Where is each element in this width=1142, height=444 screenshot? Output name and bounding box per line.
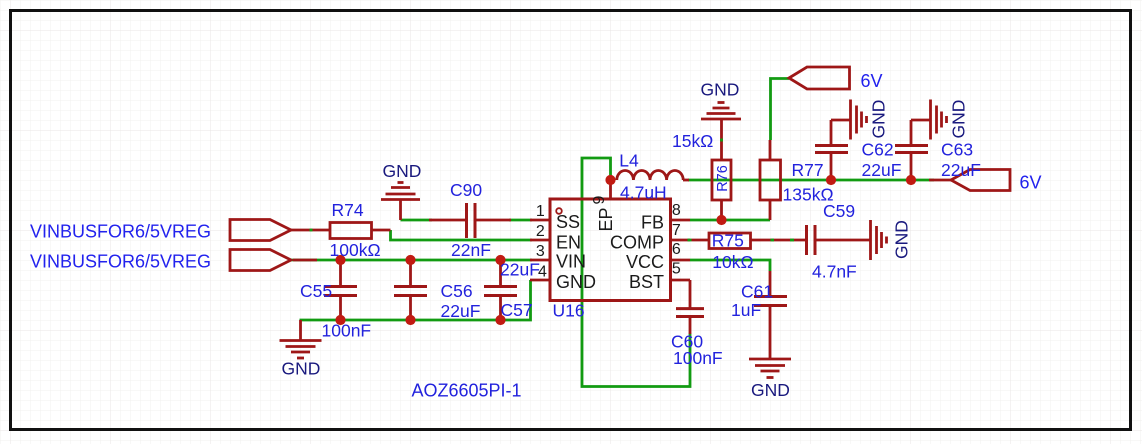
svg-text:100nF: 100nF — [673, 348, 723, 368]
svg-text:22uF: 22uF — [500, 260, 540, 280]
svg-text:1: 1 — [536, 203, 545, 220]
svg-text:EP: EP — [596, 207, 616, 231]
svg-text:VINBUSFOR6/5VREG: VINBUSFOR6/5VREG — [30, 221, 211, 241]
svg-text:VCC: VCC — [626, 252, 664, 272]
svg-text:C55: C55 — [300, 281, 332, 301]
svg-text:GND: GND — [892, 220, 912, 259]
svg-text:22uF: 22uF — [441, 301, 481, 321]
svg-text:GND: GND — [282, 359, 321, 379]
svg-text:FB: FB — [641, 212, 664, 232]
svg-text:R76: R76 — [715, 165, 731, 192]
svg-text:C57: C57 — [501, 300, 533, 320]
svg-text:C59: C59 — [823, 201, 855, 221]
svg-text:10kΩ: 10kΩ — [712, 252, 753, 272]
svg-text:6V: 6V — [861, 71, 883, 91]
svg-text:C90: C90 — [450, 180, 482, 200]
svg-text:100kΩ: 100kΩ — [330, 240, 381, 260]
svg-text:GND: GND — [949, 100, 969, 139]
svg-text:C61: C61 — [741, 282, 773, 302]
svg-text:GND: GND — [751, 380, 790, 400]
svg-text:C63: C63 — [941, 140, 973, 160]
svg-text:6: 6 — [672, 241, 681, 258]
svg-text:9: 9 — [591, 196, 608, 205]
svg-text:1uF: 1uF — [731, 300, 761, 320]
svg-text:COMP: COMP — [610, 233, 664, 253]
svg-text:22nF: 22nF — [451, 240, 491, 260]
svg-text:R75: R75 — [712, 230, 744, 250]
svg-text:SS: SS — [556, 212, 580, 232]
svg-text:U16: U16 — [553, 301, 585, 321]
svg-text:7: 7 — [672, 222, 681, 239]
svg-text:R74: R74 — [332, 200, 364, 220]
svg-text:VINBUSFOR6/5VREG: VINBUSFOR6/5VREG — [30, 251, 211, 271]
svg-text:4.7uH: 4.7uH — [620, 183, 667, 203]
svg-text:BST: BST — [629, 272, 664, 292]
svg-text:4: 4 — [538, 263, 547, 280]
svg-text:AOZ6605PI-1: AOZ6605PI-1 — [412, 381, 522, 401]
svg-text:22uF: 22uF — [941, 160, 981, 180]
svg-text:C56: C56 — [441, 281, 473, 301]
svg-text:100nF: 100nF — [322, 321, 372, 341]
svg-text:8: 8 — [672, 202, 681, 219]
svg-text:GND: GND — [383, 161, 422, 181]
svg-text:VIN: VIN — [556, 252, 586, 272]
svg-text:3: 3 — [536, 243, 545, 260]
svg-text:EN: EN — [556, 232, 581, 252]
svg-text:GND: GND — [869, 100, 889, 139]
svg-text:4.7nF: 4.7nF — [812, 262, 857, 282]
svg-text:C62: C62 — [862, 140, 894, 160]
svg-text:22uF: 22uF — [862, 160, 902, 180]
svg-text:5: 5 — [672, 261, 681, 278]
svg-text:6V: 6V — [1020, 172, 1042, 192]
svg-text:GND: GND — [701, 80, 740, 100]
svg-text:L4: L4 — [619, 151, 639, 171]
svg-text:2: 2 — [536, 223, 545, 240]
svg-text:R77: R77 — [792, 160, 824, 180]
svg-text:15kΩ: 15kΩ — [672, 131, 713, 151]
svg-text:GND: GND — [556, 272, 596, 292]
